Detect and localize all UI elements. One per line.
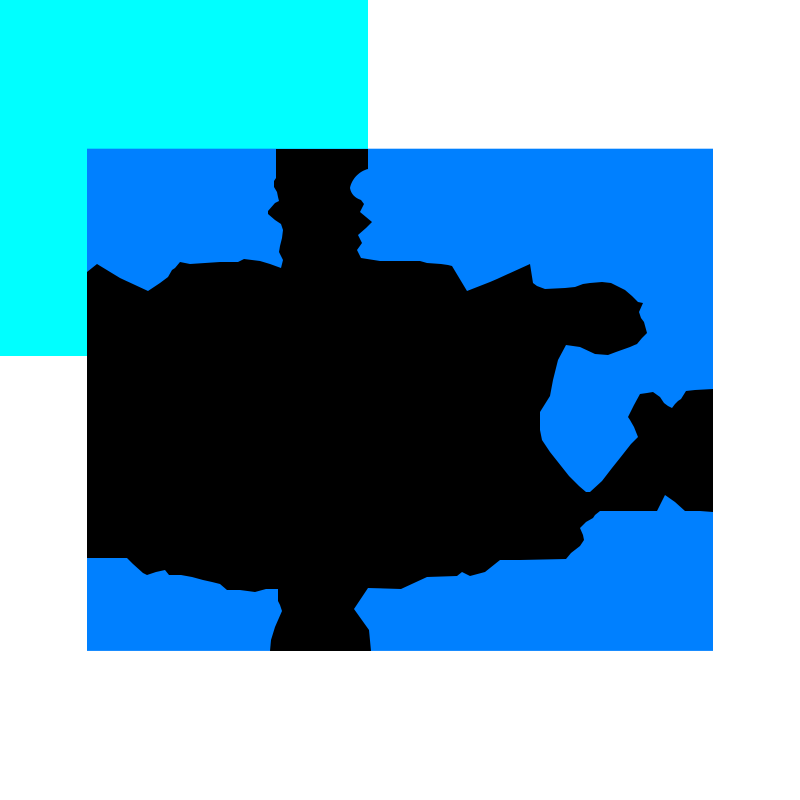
blue rectangle [87,149,713,651]
black silhouette [87,149,713,651]
cyan rectangle [0,0,368,356]
